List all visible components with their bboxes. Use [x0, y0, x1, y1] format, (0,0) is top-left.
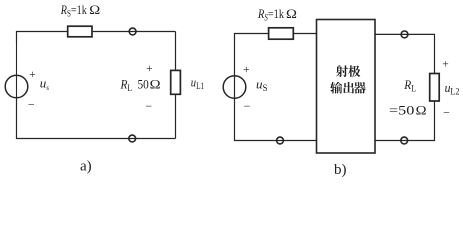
wire: a right vertical	[175, 32, 177, 139]
box text 输出器	[330, 82, 366, 94]
wire: through source a	[16, 43, 18, 98]
resistor RL1	[171, 70, 181, 94]
terminal: a bottom	[129, 135, 136, 142]
svg-text:=50: =50	[389, 103, 414, 118]
box text 射极	[336, 65, 360, 77]
svg-text:Ω: Ω	[286, 7, 297, 21]
svg-text:−: −	[145, 99, 152, 113]
svg-text:−: −	[244, 99, 251, 113]
resistor RS (b)	[269, 28, 294, 39]
svg-text:−: −	[443, 105, 450, 119]
svg-text:RS=1k: RS=1k	[257, 6, 284, 23]
svg-text:+: +	[29, 69, 36, 81]
svg-text:b): b)	[334, 162, 347, 178]
wire: a bottom	[17, 98, 176, 139]
terminal: b bottom-left	[277, 137, 284, 144]
voltage source u_S (b)	[223, 76, 246, 99]
terminal: a top	[129, 28, 136, 35]
svg-text:+: +	[146, 63, 153, 75]
wire: b top-right	[375, 34, 435, 73]
terminal: b top-right	[401, 31, 408, 38]
resistor RS (a)	[68, 26, 92, 37]
emitter-follower box	[317, 20, 376, 154]
svg-text:RL 50: RL 50	[120, 76, 149, 93]
wire: b bottom-right	[375, 101, 435, 141]
wire: a top	[17, 32, 176, 44]
svg-text:a): a)	[80, 159, 92, 175]
svg-text:−: −	[28, 98, 35, 112]
svg-text:RS=1k: RS=1k	[60, 2, 87, 19]
resistor RL2	[430, 74, 440, 102]
svg-text:Ω: Ω	[150, 77, 161, 91]
wire: b left vertical + bottom-left	[235, 44, 317, 141]
svg-text:Ω: Ω	[89, 3, 100, 17]
wire: b top	[235, 34, 317, 45]
svg-text:Ω: Ω	[416, 104, 427, 118]
terminal: b bottom-right	[401, 137, 408, 144]
svg-text:+: +	[243, 64, 250, 76]
svg-text:+: +	[442, 59, 449, 71]
voltage source u_s	[5, 75, 28, 98]
